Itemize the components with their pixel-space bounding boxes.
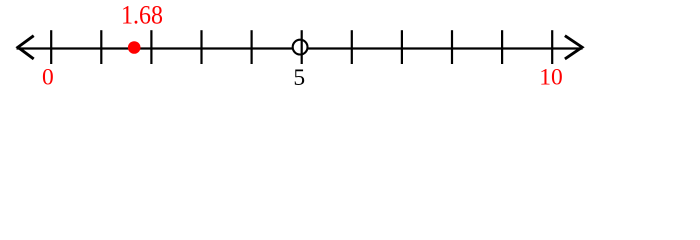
point at 1.68 (red filled dot)	[128, 41, 141, 54]
tick 3	[200, 30, 202, 64]
open circle at 5	[293, 40, 308, 55]
tick 0	[50, 30, 52, 64]
svg-text:1.68: 1.68	[121, 0, 163, 29]
tick 2	[150, 30, 152, 64]
tick 4	[251, 30, 253, 64]
svg-text:5: 5	[293, 65, 305, 91]
left arrowhead	[18, 36, 34, 59]
tick 9	[501, 30, 503, 64]
tick 7	[401, 30, 403, 64]
tick 1	[100, 30, 102, 64]
svg-text:10: 10	[539, 65, 563, 91]
tick 5	[301, 30, 303, 64]
tick 10	[551, 30, 553, 64]
number line axis	[17, 47, 583, 49]
tick 6	[351, 30, 353, 64]
svg-text:0: 0	[42, 65, 54, 91]
right arrowhead	[565, 36, 582, 59]
tick 8	[451, 30, 453, 64]
